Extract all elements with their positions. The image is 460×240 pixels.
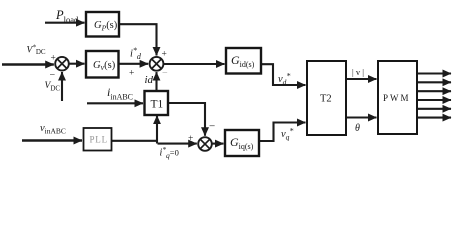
svg-text:−: − [209, 121, 215, 133]
svg-text:+: + [51, 54, 56, 64]
svg-text:−: − [50, 70, 56, 81]
wire i_inABC input [87, 102, 143, 104]
svg-text:PLL: PLL [90, 135, 108, 145]
svg-text:T1: T1 [151, 99, 164, 111]
wire i*q=0 reference to X3 [158, 143, 197, 145]
wire V_DC feedback [61, 72, 63, 101]
svg-text:PWM: PWM [383, 93, 411, 103]
svg-text:V*DC: V*DC [27, 44, 46, 57]
svg-text:Gv(s): Gv(s) [93, 60, 116, 72]
wire PWM gate output 1 [417, 72, 451, 74]
wire theta to T1 [156, 116, 158, 144]
wire G_P(s) output to node X2 [119, 24, 157, 55]
summing junction X3 [198, 137, 212, 151]
svg-text:i*q=0: i*q=0 [160, 145, 179, 160]
wire PWM gate output 5 [417, 108, 451, 110]
wire iq from T1 to X3 [168, 103, 205, 136]
wire PWM gate output 6 [417, 117, 451, 119]
svg-text:θ: θ [355, 123, 360, 134]
block T1 [145, 91, 169, 115]
svg-text:T2: T2 [320, 94, 332, 105]
summing junction X1 [55, 57, 69, 71]
svg-text:| v |: | v | [352, 67, 364, 77]
block G_P(s) [86, 12, 119, 37]
wire X3 output to G_iq(s) [212, 143, 224, 145]
wire G_id(s) output v_d* to T2 [261, 64, 306, 85]
block G_id(s) [226, 48, 261, 74]
svg-text:iinABC: iinABC [107, 85, 133, 102]
wire V*DC input [2, 63, 54, 66]
wire theta from T2 to PWM [346, 116, 377, 118]
wire |v| from T2 to PWM [346, 78, 377, 80]
wire PWM gate output 4 [417, 99, 451, 101]
wire P_load input [45, 22, 85, 24]
wire X1 to G_V(s) [69, 63, 85, 65]
svg-text:id: id [145, 74, 154, 86]
block T2 [307, 61, 346, 135]
wire G_iq(s) output v_q* to T2 [259, 123, 306, 142]
svg-text:+: + [188, 134, 193, 144]
wire id from T1 to X2 [155, 72, 157, 91]
svg-text:+: + [162, 50, 167, 60]
block PWM [378, 61, 417, 134]
wire V_inABC input [22, 139, 82, 141]
summing junction X2 [150, 57, 164, 71]
block PLL [84, 128, 112, 151]
wire X2 output to G_id(s) [163, 63, 224, 65]
svg-text:i*d: i*d [130, 46, 142, 61]
svg-text:vinABC: vinABC [40, 123, 66, 136]
wire G_V(s) output i*d to X2 [119, 63, 149, 65]
block G_iq(s) [225, 130, 259, 156]
wire PLL output [112, 140, 159, 142]
svg-text:+: + [129, 69, 134, 79]
wire PWM gate output 3 [417, 90, 451, 92]
block G_V(s) [86, 51, 119, 78]
svg-text:VDC: VDC [45, 81, 61, 93]
wire PWM gate output 2 [417, 81, 451, 83]
svg-text:−: − [162, 68, 168, 79]
svg-text:vq*: vq* [281, 127, 293, 142]
svg-text:GP(s): GP(s) [94, 20, 118, 33]
